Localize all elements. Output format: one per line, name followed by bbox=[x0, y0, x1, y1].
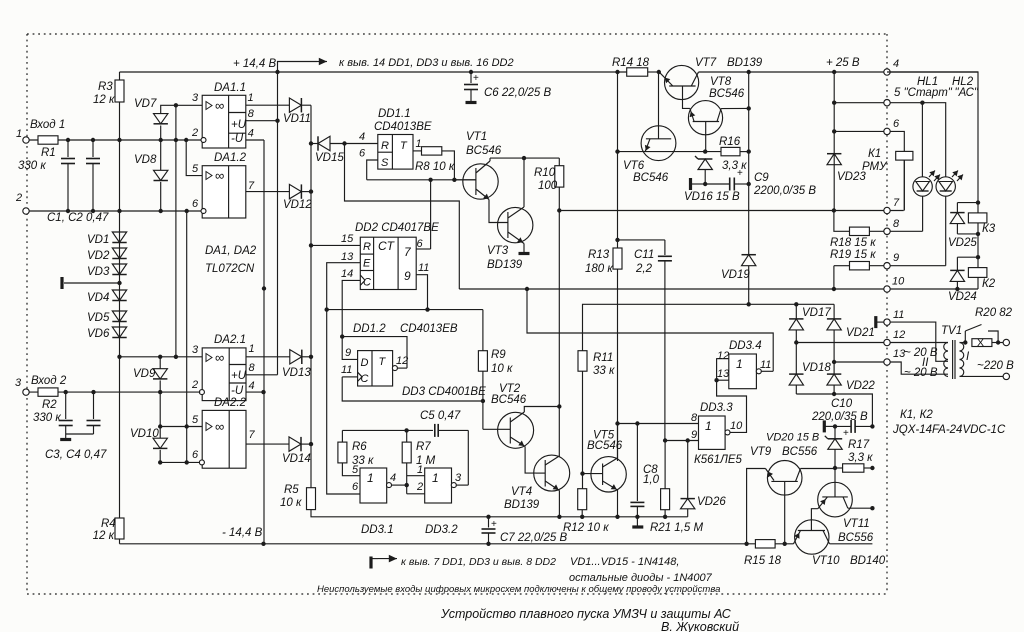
wire 288 rail bbox=[459, 287, 887, 291]
zener VD20 bbox=[766, 426, 842, 468]
svg-text:R18 15 к: R18 15 к bbox=[830, 237, 876, 249]
svg-text:BD139: BD139 bbox=[487, 259, 523, 271]
relay K2 bbox=[950, 257, 996, 290]
svg-text:11: 11 bbox=[341, 364, 352, 376]
label VD24 bbox=[948, 291, 977, 303]
svg-text:VD7: VD7 bbox=[134, 98, 157, 110]
svg-text:DA1, DA2: DA1, DA2 bbox=[205, 245, 257, 257]
svg-text:VT8: VT8 bbox=[710, 76, 732, 88]
svg-text:VD15: VD15 bbox=[315, 152, 344, 164]
wire x186.7 bbox=[186, 211, 188, 462]
wire S input bbox=[367, 160, 378, 180]
wire term10 line bbox=[890, 287, 978, 291]
svg-text:13: 13 bbox=[717, 368, 730, 380]
resistor R17 bbox=[833, 439, 875, 472]
svg-text:DD2 CD4017BE: DD2 CD4017BE bbox=[355, 222, 439, 234]
wire +14,4 V rail bbox=[120, 70, 979, 74]
wire bridge bottom bbox=[796, 392, 872, 427]
wire VT24 collector bbox=[557, 404, 561, 408]
pin 1 DA2.1 bbox=[246, 343, 290, 357]
svg-text:VD3: VD3 bbox=[87, 266, 110, 278]
pin 3 DA2.1 bbox=[117, 344, 202, 359]
transistor VT4 bbox=[534, 455, 570, 517]
gate DD3.4 bbox=[717, 340, 771, 389]
svg-text:Устройство плавного пуска УМЗЧ: Устройство плавного пуска УМЗЧ и защиты … bbox=[440, 607, 732, 621]
wire K1 branch bbox=[890, 131, 904, 151]
wire R18 to term8 bbox=[869, 230, 887, 232]
resistor R8 bbox=[415, 147, 455, 173]
svg-text:7: 7 bbox=[248, 180, 255, 192]
LED HL2 bbox=[936, 103, 963, 266]
svg-text:BC556: BC556 bbox=[782, 446, 818, 458]
svg-text:DD1.1: DD1.1 bbox=[378, 108, 411, 120]
svg-text:R12 10 к: R12 10 к bbox=[563, 522, 609, 534]
pin 4 DA2.1 bbox=[246, 380, 266, 394]
wire x617 vertical bbox=[615, 72, 619, 248]
svg-text:3,3 к: 3,3 к bbox=[722, 160, 747, 172]
border dashed frame bbox=[27, 34, 887, 594]
svg-text:-U: -U bbox=[231, 385, 244, 397]
pin 7 DA2.2 bbox=[246, 429, 289, 444]
capacitor C1 bbox=[61, 140, 75, 211]
wire DD3.4 out bbox=[761, 370, 773, 372]
svg-text:VD21: VD21 bbox=[846, 327, 875, 339]
svg-text:Вход 1: Вход 1 bbox=[30, 119, 65, 131]
svg-text:∞: ∞ bbox=[215, 419, 224, 434]
wire x311 bbox=[309, 105, 313, 488]
svg-text:5 "Старт": 5 "Старт" bbox=[894, 87, 953, 99]
svg-text:+: + bbox=[843, 428, 849, 439]
capacitor C6 bbox=[464, 72, 551, 103]
svg-text:К3: К3 bbox=[982, 223, 996, 235]
svg-text:10 к: 10 к bbox=[280, 497, 302, 509]
capacitor C2 bbox=[86, 140, 100, 211]
svg-text:C7 22,0/25 В: C7 22,0/25 В bbox=[500, 532, 567, 544]
svg-text:15: 15 bbox=[341, 233, 354, 245]
diode VD21 bbox=[827, 304, 875, 362]
resistor R11 bbox=[578, 351, 615, 377]
svg-text:VT3: VT3 bbox=[487, 245, 509, 257]
terminal 11 bar bbox=[876, 316, 887, 328]
svg-text:5: 5 bbox=[192, 414, 199, 426]
svg-text:DD3.4: DD3.4 bbox=[729, 340, 762, 352]
resistor R1 bbox=[18, 136, 58, 172]
terminal 10 bbox=[884, 276, 905, 293]
svg-text:R2: R2 bbox=[42, 399, 57, 411]
svg-text:7: 7 bbox=[249, 429, 256, 441]
svg-text:VD22: VD22 bbox=[846, 380, 875, 392]
svg-text:VD23: VD23 bbox=[837, 171, 866, 183]
svg-text:12 к: 12 к bbox=[93, 530, 115, 542]
diode VD14 bbox=[282, 437, 311, 465]
svg-text:остальные диоды - 1N4007: остальные диоды - 1N4007 bbox=[569, 572, 713, 584]
wire -U vertical bbox=[262, 140, 266, 544]
svg-text:VD6: VD6 bbox=[87, 328, 110, 340]
svg-text:BD139: BD139 bbox=[727, 57, 763, 69]
svg-text:R6: R6 bbox=[352, 441, 367, 453]
pin 9 DD1.2 bbox=[340, 334, 358, 359]
diode VD10 bbox=[130, 392, 167, 462]
label 20V bbox=[904, 347, 938, 379]
svg-text:R14 18: R14 18 bbox=[612, 57, 650, 69]
svg-text:6: 6 bbox=[192, 198, 199, 210]
wire term11 to TV1 bbox=[890, 322, 948, 361]
transformer TV1 bbox=[941, 325, 970, 379]
svg-text:DA1.1: DA1.1 bbox=[214, 82, 246, 94]
svg-text:VD19: VD19 bbox=[721, 269, 750, 281]
wire 211 rail bbox=[557, 208, 904, 212]
svg-text:C6 22,0/25 В: C6 22,0/25 В bbox=[484, 87, 551, 99]
resistor R4 bbox=[93, 518, 124, 544]
svg-text:6: 6 bbox=[352, 481, 359, 493]
svg-text:2,2: 2,2 bbox=[635, 263, 653, 275]
wire pin11 to R9net bbox=[342, 377, 485, 403]
resistor R20 bbox=[972, 307, 1013, 349]
svg-text:3: 3 bbox=[192, 344, 199, 356]
resistor R13 bbox=[585, 248, 622, 461]
svg-text:BC546: BC546 bbox=[633, 172, 669, 184]
label Vhod 1 bbox=[30, 119, 65, 131]
svg-text:VD17: VD17 bbox=[802, 307, 831, 319]
svg-text:R20 82: R20 82 bbox=[975, 307, 1013, 319]
svg-text:9: 9 bbox=[691, 429, 697, 441]
diode VD22 bbox=[827, 362, 875, 394]
svg-text:TV1: TV1 bbox=[941, 325, 962, 337]
node VT5 collector junction bbox=[615, 421, 619, 425]
svg-text:R8 10 к: R8 10 к bbox=[415, 161, 455, 173]
svg-text:C: C bbox=[361, 373, 369, 385]
svg-text:8: 8 bbox=[893, 218, 900, 230]
svg-text:1: 1 bbox=[736, 357, 743, 371]
wire VD23 vertical bbox=[833, 72, 835, 211]
svg-text:6: 6 bbox=[359, 148, 366, 160]
svg-text:Неиспользуемые входы цифровых: Неиспользуемые входы цифровых микросхем … bbox=[317, 584, 720, 595]
svg-text:2: 2 bbox=[191, 127, 198, 139]
wire VT1 base line bbox=[367, 178, 476, 182]
terminal 11 bbox=[884, 309, 905, 325]
svg-text:VD12: VD12 bbox=[283, 199, 312, 211]
resistor R12 bbox=[563, 489, 609, 534]
capacitor C9 bbox=[691, 168, 817, 197]
wire VT1 collector bbox=[490, 156, 559, 160]
diode VD1 bbox=[87, 232, 127, 246]
op-amp DA2.1 bbox=[202, 334, 247, 401]
wire TV1 primary top bbox=[960, 340, 968, 344]
pin 2 DA2.1 bbox=[191, 379, 204, 395]
svg-text:+: + bbox=[737, 168, 743, 179]
svg-text:2200,0/35 В: 2200,0/35 В bbox=[753, 185, 816, 197]
svg-text:6: 6 bbox=[417, 238, 424, 250]
svg-text:BC546: BC546 bbox=[587, 440, 623, 452]
svg-text:C: C bbox=[363, 277, 371, 289]
svg-text:12 к: 12 к bbox=[93, 94, 115, 106]
gate DD3.3 bbox=[691, 402, 743, 449]
svg-text:X: X bbox=[977, 337, 984, 349]
wire -14,4 V rail bbox=[120, 542, 873, 546]
svg-text:R9: R9 bbox=[491, 349, 506, 361]
pin 3 DA1.1 bbox=[161, 92, 202, 108]
wire DD1.2 loop bbox=[342, 337, 407, 369]
diode VD19 bbox=[721, 255, 756, 305]
pin 2 DA1.1 bbox=[191, 127, 206, 143]
svg-text:5: 5 bbox=[352, 464, 359, 476]
svg-text:1: 1 bbox=[416, 138, 422, 150]
wire term12 to TV1 bbox=[890, 342, 948, 344]
svg-text:R19 15 к: R19 15 к bbox=[830, 249, 876, 261]
svg-text:11: 11 bbox=[418, 262, 429, 274]
ground common arrow bbox=[371, 555, 397, 569]
diode VD13 bbox=[282, 350, 311, 379]
wire x175.9 bbox=[175, 105, 177, 356]
svg-text:DA2.1: DA2.1 bbox=[214, 334, 246, 346]
svg-text:3,3 к: 3,3 к bbox=[848, 452, 873, 464]
svg-text:R5: R5 bbox=[284, 484, 299, 496]
wire left vertical bbox=[119, 102, 121, 518]
svg-text:R17: R17 bbox=[848, 439, 870, 451]
svg-text:VT7: VT7 bbox=[695, 57, 717, 69]
wire DD3.1 out bbox=[391, 483, 409, 487]
capacitor C4 bbox=[87, 392, 101, 434]
pin 6 DA2.2 bbox=[158, 449, 204, 465]
svg-text:13: 13 bbox=[341, 251, 354, 263]
diode VD15 bbox=[311, 136, 378, 164]
pin 5 DA2.2 bbox=[158, 414, 202, 429]
svg-text:DD3 CD4001BE: DD3 CD4001BE bbox=[402, 386, 486, 398]
terminal 13 bbox=[884, 348, 906, 365]
label K1 K2 relays bbox=[892, 409, 1006, 436]
svg-text:S: S bbox=[381, 157, 389, 169]
capacitor C7 bbox=[482, 517, 568, 544]
svg-text:VT4: VT4 bbox=[511, 486, 532, 498]
pin 6 DA1.2 bbox=[192, 198, 206, 214]
svg-text:R11: R11 bbox=[593, 352, 613, 364]
svg-text:330 к: 330 к bbox=[33, 412, 61, 424]
svg-text:8: 8 bbox=[691, 412, 698, 424]
svg-text:~ 20 В: ~ 20 В bbox=[904, 347, 938, 359]
diode VD18 bbox=[789, 343, 831, 395]
wire right border bbox=[887, 72, 980, 289]
svg-text:C11: C11 bbox=[634, 249, 654, 261]
transistor VT1 bbox=[454, 131, 508, 223]
svg-text:R3: R3 bbox=[98, 81, 113, 93]
terminal 7 bbox=[884, 197, 900, 214]
label title bbox=[440, 607, 732, 621]
svg-text:-U: -U bbox=[231, 133, 244, 145]
svg-text:12: 12 bbox=[893, 329, 905, 341]
wire input2-line bbox=[29, 209, 202, 213]
resistor R14 bbox=[612, 57, 650, 76]
pin 5 DA1.2 bbox=[186, 140, 202, 176]
svg-text:R13: R13 bbox=[588, 249, 610, 261]
gate DD3.2 bbox=[416, 464, 462, 536]
svg-text:VD16 15 В: VD16 15 В bbox=[684, 191, 740, 203]
svg-text:3: 3 bbox=[15, 377, 22, 389]
wire term9 to HL2 bbox=[890, 265, 946, 267]
label HL1 HL2 bbox=[917, 76, 979, 99]
terminal 8 bbox=[884, 218, 900, 235]
svg-text:C3, C4 0,47: C3, C4 0,47 bbox=[45, 449, 107, 461]
svg-text:VD1: VD1 bbox=[87, 234, 109, 246]
svg-text:4: 4 bbox=[248, 128, 254, 140]
svg-text:CD4013BE: CD4013BE bbox=[374, 121, 432, 133]
svg-text:C10: C10 bbox=[831, 398, 853, 410]
svg-text:VT6: VT6 bbox=[623, 160, 645, 172]
svg-text:C1, C2 0,47: C1, C2 0,47 bbox=[47, 212, 109, 224]
transistor VT3 bbox=[487, 158, 533, 271]
ground tap chain bbox=[62, 277, 122, 289]
diode VD7 bbox=[134, 98, 168, 140]
svg-text:10 к: 10 к bbox=[491, 363, 513, 375]
pin 4 DA1.1 bbox=[246, 128, 264, 140]
logic DD1.1 bbox=[374, 108, 432, 169]
diode VD11 bbox=[283, 98, 311, 125]
pin 12 DD1.2 bbox=[392, 355, 408, 371]
label note unused bbox=[317, 584, 720, 595]
label VD25 bbox=[948, 237, 977, 249]
svg-text:2: 2 bbox=[416, 481, 423, 493]
diode VD4 bbox=[87, 290, 127, 304]
label 220V bbox=[977, 360, 1014, 372]
diode VD9 bbox=[133, 357, 167, 395]
pin 15 DD2 bbox=[311, 233, 360, 245]
wire pin8 line bbox=[618, 421, 699, 425]
pin 13 DD3.4 bbox=[714, 378, 728, 382]
pin 11 DD1.2 bbox=[341, 364, 358, 377]
svg-text:CT: CT bbox=[378, 239, 396, 253]
ground C3 C4 bbox=[60, 434, 93, 440]
logic DD2 CD4017 bbox=[355, 222, 439, 290]
svg-text:R15 18: R15 18 bbox=[744, 555, 782, 567]
svg-text:9: 9 bbox=[345, 347, 351, 359]
svg-text:VD8: VD8 bbox=[134, 154, 157, 166]
svg-text:VD25: VD25 bbox=[948, 237, 977, 249]
svg-text:1: 1 bbox=[367, 471, 374, 485]
svg-text:R: R bbox=[381, 140, 389, 152]
label DA1 DA2 bbox=[205, 245, 257, 275]
svg-text:JQX-14FA-24VDC-1C: JQX-14FA-24VDC-1C bbox=[892, 424, 1006, 436]
capacitor C10 bbox=[811, 398, 875, 439]
resistor R10 bbox=[534, 158, 564, 457]
wire 304 line bbox=[583, 302, 834, 306]
pin 14 DD2 bbox=[341, 268, 360, 337]
svg-text:BC546: BC546 bbox=[466, 145, 502, 157]
svg-text:~ 20 В: ~ 20 В bbox=[904, 367, 938, 379]
svg-text:14: 14 bbox=[341, 268, 353, 280]
svg-text:9: 9 bbox=[893, 252, 899, 264]
label k vyv 14 bbox=[339, 57, 514, 69]
svg-text:DA2.2: DA2.2 bbox=[214, 397, 247, 409]
svg-text:+U: +U bbox=[231, 119, 247, 131]
pin 13 DD2 bbox=[327, 251, 361, 310]
terminal 1 bbox=[16, 128, 29, 143]
svg-text:11: 11 bbox=[893, 309, 904, 321]
pin 7 DA1.2 bbox=[246, 180, 290, 192]
svg-text:C9: C9 bbox=[754, 172, 769, 184]
diode VD5 bbox=[87, 311, 127, 324]
svg-text:9: 9 bbox=[404, 269, 411, 283]
svg-text:R4: R4 bbox=[101, 518, 116, 530]
resistor R5 bbox=[280, 484, 316, 510]
terminal 3 bbox=[15, 377, 29, 395]
svg-text:VD1...VD15 - 1N4148,: VD1...VD15 - 1N4148, bbox=[570, 556, 679, 568]
diode VD8 bbox=[134, 140, 168, 211]
terminal 4 bbox=[884, 58, 899, 75]
svg-text:4: 4 bbox=[390, 472, 396, 484]
pin 6 DD2 bbox=[416, 180, 430, 250]
LED HL1 bbox=[913, 103, 940, 232]
svg-text:"АС": "АС" bbox=[955, 87, 979, 99]
svg-text:12: 12 bbox=[396, 355, 408, 367]
terminal 2 bbox=[15, 192, 29, 214]
svg-text:330 к: 330 к bbox=[18, 160, 46, 172]
zener VD16 bbox=[684, 156, 740, 203]
diode VD3 bbox=[87, 264, 127, 278]
wire DD1R tap bbox=[345, 144, 460, 290]
label K561 bbox=[694, 454, 743, 466]
wire term8 to HL1 bbox=[890, 230, 923, 232]
svg-text:4: 4 bbox=[893, 58, 899, 70]
wire x748 vertical bbox=[748, 72, 750, 255]
terminal 5 bbox=[884, 87, 953, 106]
terminal 9 bbox=[884, 252, 899, 269]
svg-text:VD10: VD10 bbox=[130, 428, 159, 440]
resistor R2 bbox=[33, 388, 61, 424]
svg-text:VD11: VD11 bbox=[283, 113, 311, 125]
svg-text:VT11: VT11 bbox=[843, 518, 870, 530]
wire +U vertical bbox=[277, 72, 279, 375]
svg-text:VT9: VT9 bbox=[750, 446, 772, 458]
capacitor C5 bbox=[342, 410, 468, 437]
label author bbox=[661, 620, 739, 632]
svg-text:TL072CN: TL072CN bbox=[205, 263, 255, 275]
capacitor C3 bbox=[59, 392, 73, 434]
svg-text:8: 8 bbox=[249, 362, 256, 374]
diode VD2 bbox=[87, 248, 127, 262]
svg-text:D: D bbox=[361, 357, 369, 369]
label VT4 bbox=[504, 486, 540, 511]
svg-text:К2: К2 bbox=[982, 278, 996, 290]
svg-text:R7: R7 bbox=[416, 441, 431, 453]
label diodes note bbox=[569, 556, 713, 584]
wire terminal6 line bbox=[832, 129, 887, 133]
svg-text:К1, К2: К1, К2 bbox=[900, 409, 933, 421]
label C1 C2 bbox=[47, 212, 109, 224]
transistor VT7 bbox=[659, 57, 762, 108]
svg-text:1,0: 1,0 bbox=[643, 474, 660, 486]
resistor R18 bbox=[830, 227, 876, 249]
svg-text:R21 1,5 М: R21 1,5 М bbox=[650, 522, 703, 534]
label +25V bbox=[826, 57, 860, 69]
svg-text:4: 4 bbox=[249, 380, 255, 392]
wire term13 to TV1 bbox=[890, 362, 948, 374]
wire TV1 primary bottom bbox=[960, 373, 1010, 379]
arrow to pin 14 DD1 bbox=[278, 58, 328, 72]
wire DD3.3 out bbox=[717, 359, 747, 433]
logic DD1.2 bbox=[353, 323, 458, 386]
label DD3 bbox=[402, 386, 486, 398]
svg-text:R16: R16 bbox=[719, 136, 741, 148]
svg-text:VT1: VT1 bbox=[466, 131, 487, 143]
wire R18 branch bbox=[834, 211, 850, 232]
svg-text:+: + bbox=[473, 73, 479, 84]
svg-text:DA1.2: DA1.2 bbox=[214, 152, 247, 164]
pins DD3.2 bbox=[407, 476, 425, 494]
svg-text:∞: ∞ bbox=[215, 168, 224, 183]
svg-text:HL1: HL1 bbox=[917, 76, 938, 88]
switch R20 bypass bbox=[965, 325, 1000, 345]
op-amp DA2.2 bbox=[202, 397, 246, 468]
wire input1 bbox=[29, 138, 202, 142]
